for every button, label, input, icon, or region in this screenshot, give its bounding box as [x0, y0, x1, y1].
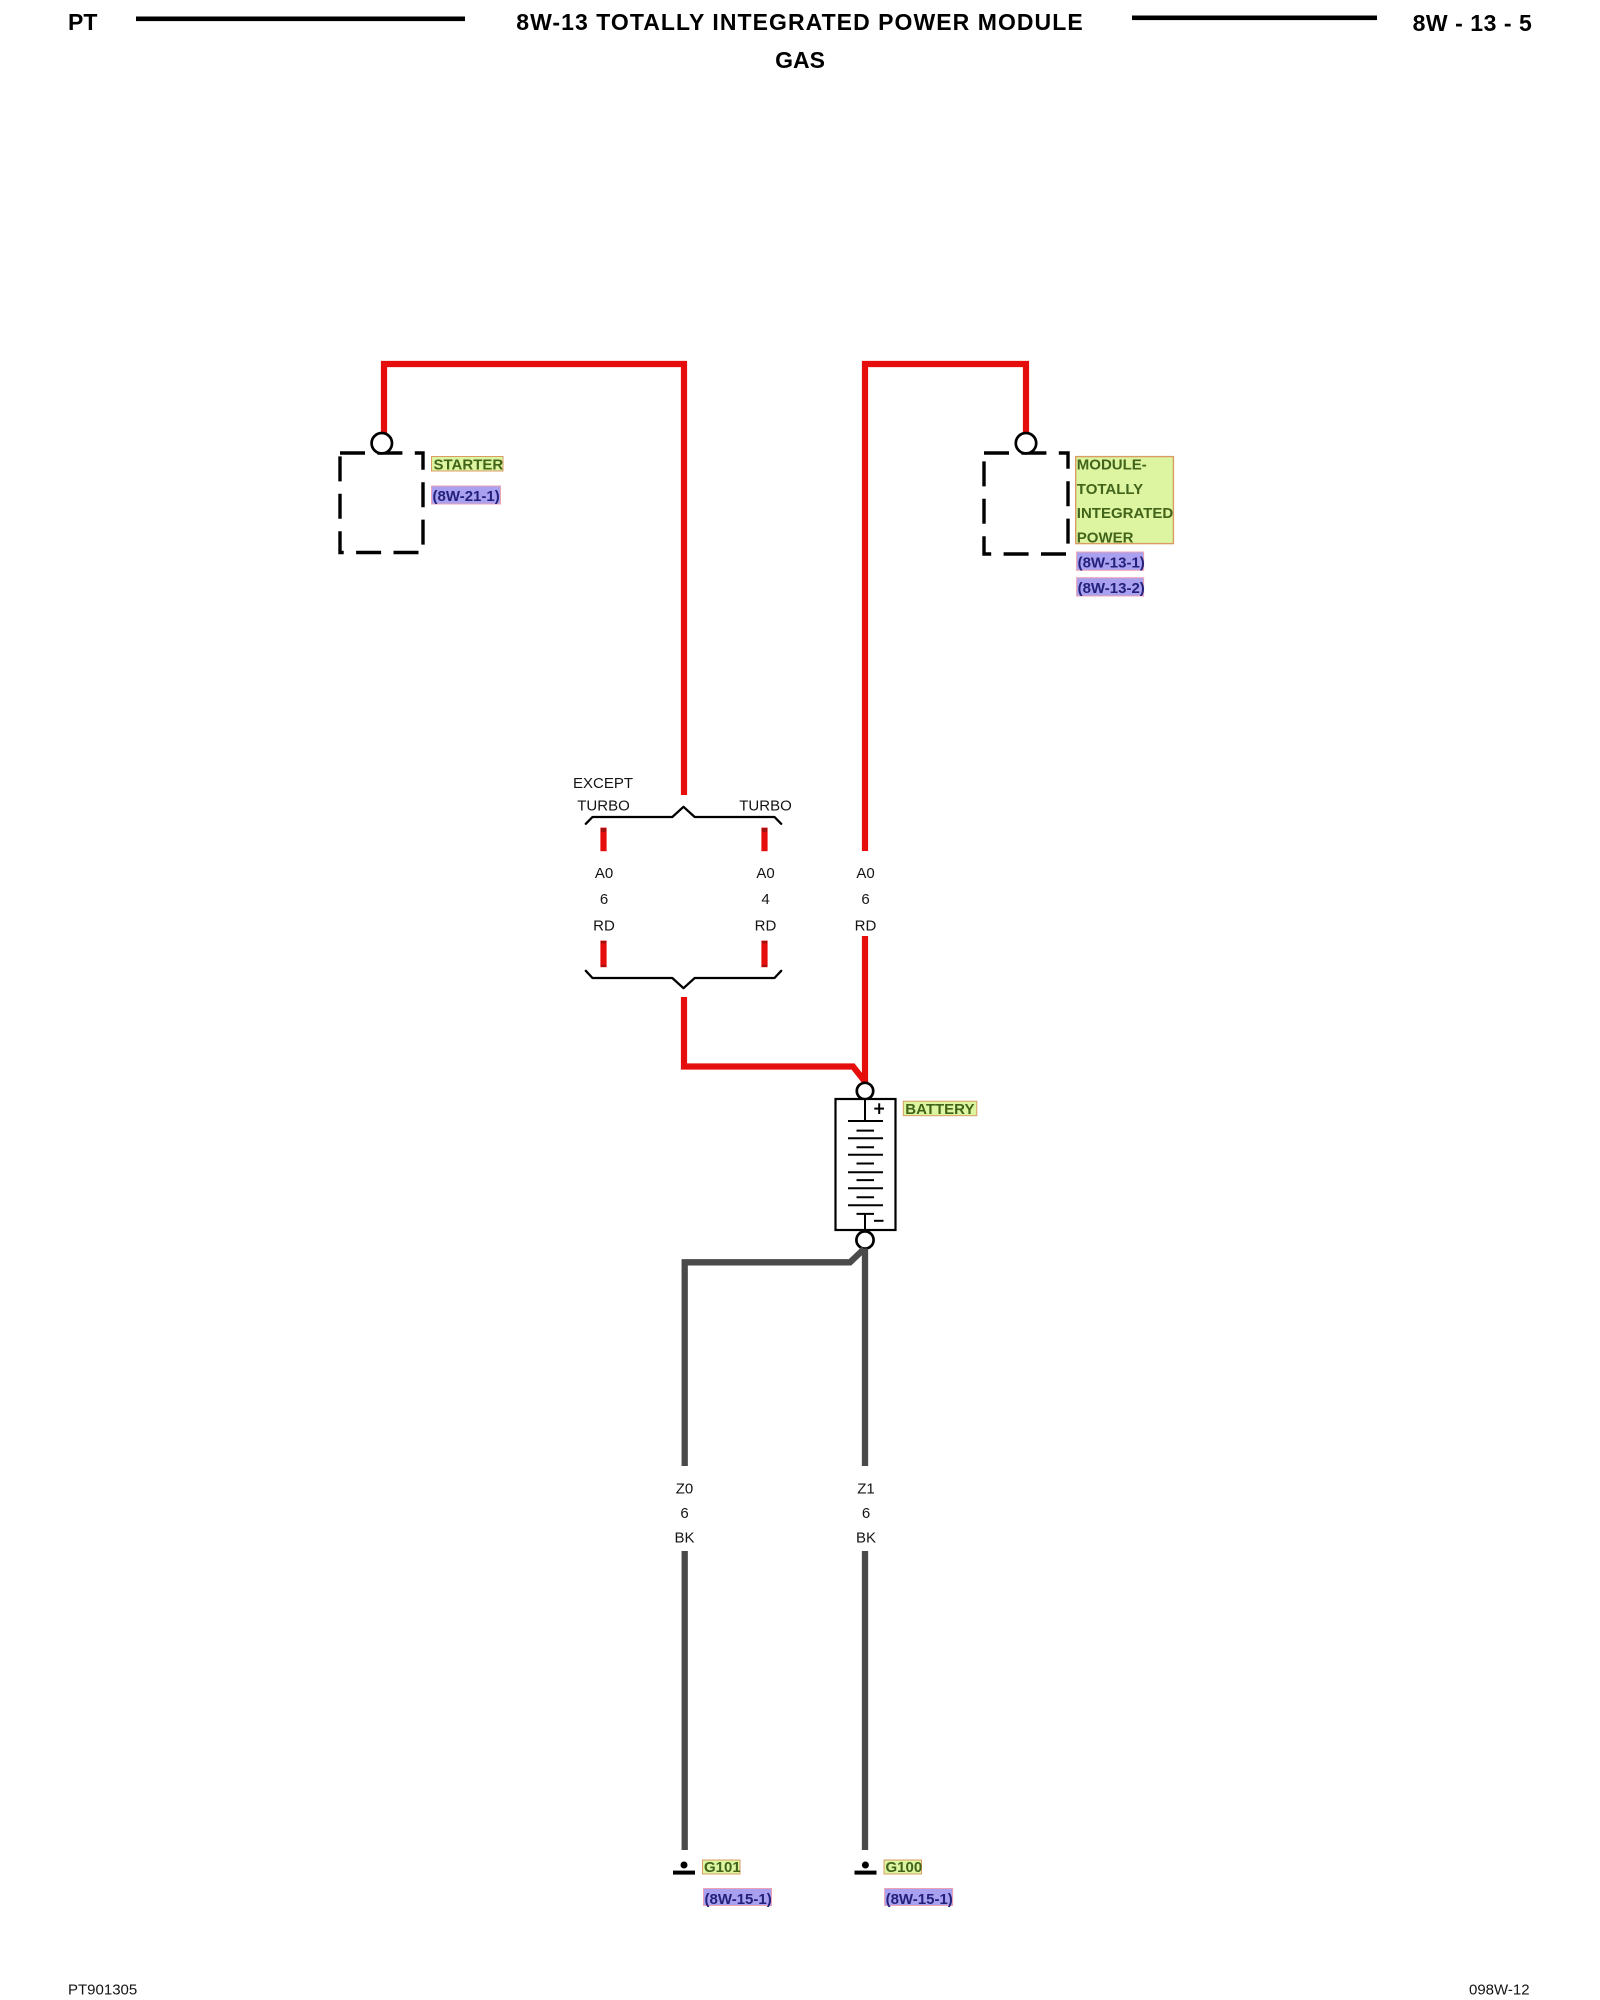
- svg-text:INTEGRATED: INTEGRATED: [1077, 505, 1174, 522]
- svg-text:(8W-13-2): (8W-13-2): [1078, 580, 1145, 597]
- svg-text:GAS: GAS: [775, 47, 825, 73]
- svg-text:098W-12: 098W-12: [1469, 1982, 1530, 1999]
- svg-text:(8W-15-1): (8W-15-1): [886, 1891, 953, 1908]
- svg-text:Z1: Z1: [857, 1481, 875, 1498]
- svg-text:BK: BK: [856, 1530, 876, 1547]
- svg-text:A0: A0: [595, 865, 613, 882]
- svg-text:BATTERY: BATTERY: [905, 1101, 974, 1118]
- svg-text:MODULE-: MODULE-: [1077, 457, 1147, 474]
- svg-text:6: 6: [862, 1505, 870, 1522]
- svg-text:Z0: Z0: [676, 1481, 694, 1498]
- svg-text:RD: RD: [755, 918, 777, 935]
- svg-text:RD: RD: [593, 918, 615, 935]
- svg-text:PT901305: PT901305: [68, 1982, 137, 1999]
- svg-text:TURBO: TURBO: [577, 798, 630, 815]
- svg-text:BK: BK: [674, 1530, 694, 1547]
- svg-text:(8W-15-1): (8W-15-1): [705, 1891, 772, 1908]
- svg-text:4: 4: [761, 891, 769, 908]
- svg-text:TURBO: TURBO: [739, 798, 792, 815]
- svg-text:G101: G101: [704, 1859, 741, 1876]
- svg-text:8W - 13 - 5: 8W - 13 - 5: [1413, 10, 1533, 36]
- svg-text:6: 6: [680, 1505, 688, 1522]
- svg-text:A0: A0: [756, 865, 774, 882]
- svg-text:RD: RD: [855, 918, 877, 935]
- svg-text:A0: A0: [856, 865, 874, 882]
- svg-text:TOTALLY: TOTALLY: [1077, 481, 1143, 498]
- svg-text:6: 6: [861, 891, 869, 908]
- svg-text:EXCEPT: EXCEPT: [573, 775, 633, 792]
- svg-text:PT: PT: [68, 9, 97, 35]
- svg-text:(8W-13-1): (8W-13-1): [1078, 554, 1145, 571]
- svg-text:8W-13 TOTALLY INTEGRATED POWER: 8W-13 TOTALLY INTEGRATED POWER MODULE: [516, 9, 1083, 35]
- svg-text:6: 6: [600, 891, 608, 908]
- svg-text:G100: G100: [886, 1859, 923, 1876]
- svg-text:STARTER: STARTER: [434, 457, 504, 474]
- svg-text:(8W-21-1): (8W-21-1): [433, 488, 500, 505]
- svg-text:POWER: POWER: [1077, 529, 1134, 546]
